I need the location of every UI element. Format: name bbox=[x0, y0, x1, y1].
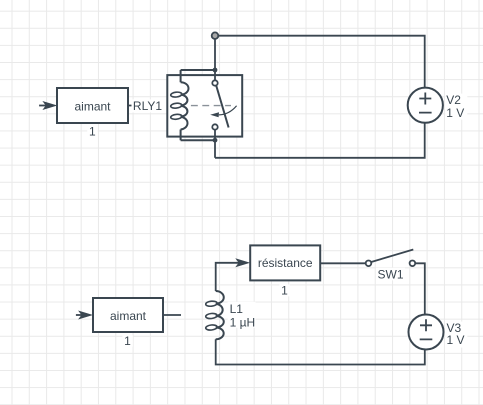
junction dot bottom bbox=[213, 138, 218, 143]
wire: input arrow tail to aimant (bottom) bbox=[76, 314, 82, 316]
wire: inductor top to résistance with arrowhead bbox=[216, 263, 239, 291]
svg-text:1 V: 1 V bbox=[447, 333, 465, 347]
svg-text:résistance: résistance bbox=[258, 256, 313, 270]
svg-text:aimant: aimant bbox=[110, 309, 147, 323]
switch SW1 contact left bbox=[366, 261, 372, 267]
wire: aimant 1 to relay RLY1 bbox=[128, 105, 167, 107]
relay coil loop 1 bbox=[170, 92, 182, 98]
relay coil loop 3 bbox=[170, 114, 182, 120]
voltage source V2 bbox=[408, 88, 443, 123]
block: aimant 1 bbox=[57, 88, 128, 123]
junction dot top bbox=[213, 68, 218, 73]
relay switch contact top bbox=[212, 80, 217, 85]
label background 1 (résistance) bbox=[279, 285, 289, 297]
wire: switch top lead bbox=[214, 36, 216, 83]
relay switch blade bbox=[216, 86, 228, 128]
wire: inductor bottom rail to V3 bbox=[216, 339, 425, 364]
wire: top rail to V2 bbox=[215, 36, 425, 88]
wire: résistance to SW1 bbox=[320, 262, 366, 264]
relay coil RLY1 bbox=[181, 82, 189, 129]
svg-text:1 µH: 1 µH bbox=[230, 315, 256, 329]
inductor loop 1 bbox=[205, 301, 217, 307]
voltage source V3 bbox=[409, 315, 444, 350]
switch SW1 contact right bbox=[410, 261, 416, 267]
inductor loop 3 bbox=[205, 324, 217, 330]
svg-text:1: 1 bbox=[124, 334, 131, 348]
label background V2 bbox=[445, 94, 467, 120]
relay dashed link bbox=[191, 105, 231, 107]
svg-text:SW1: SW1 bbox=[377, 268, 403, 282]
switch SW1 blade bbox=[371, 250, 413, 263]
label background L1 bbox=[228, 302, 256, 328]
inductor L1 bbox=[216, 291, 224, 339]
svg-text:RLY1: RLY1 bbox=[133, 99, 162, 113]
label background SW1 bbox=[376, 268, 405, 281]
arrowhead into aimant 1 bbox=[42, 101, 57, 110]
inductor loop 2 bbox=[205, 313, 217, 319]
wire: switch bottom lead bbox=[214, 127, 216, 158]
relay coil bottom bracket bbox=[181, 130, 215, 141]
label background 1 (bottom aimant) bbox=[122, 335, 132, 347]
label background V3 bbox=[445, 322, 467, 348]
relay switch arc arrow bbox=[219, 106, 237, 115]
relay RLY1 box bbox=[167, 75, 242, 137]
relay coil top bracket bbox=[181, 70, 215, 82]
svg-text:1 V: 1 V bbox=[446, 106, 464, 120]
arrowhead into aimant (bottom) bbox=[78, 311, 93, 320]
svg-text:1: 1 bbox=[281, 283, 288, 297]
relay switch contact bottom bbox=[212, 124, 217, 129]
svg-text:V2: V2 bbox=[446, 93, 461, 107]
svg-text:aimant: aimant bbox=[74, 99, 111, 113]
waypoint dot bbox=[212, 32, 219, 39]
label background RLY1 bbox=[132, 99, 167, 112]
wire: SW1 to V3 bbox=[415, 263, 425, 314]
svg-text:1: 1 bbox=[89, 124, 96, 138]
wire: aimant 2 output stub bbox=[163, 314, 181, 316]
wire: input arrow tail to aimant 1 bbox=[39, 105, 46, 107]
relay coil loop 2 bbox=[170, 103, 182, 109]
block: résistance bbox=[250, 245, 320, 280]
block: aimant 2 bbox=[93, 298, 163, 332]
wire: V2 bottom to bottom rail to relay bbox=[215, 123, 425, 158]
label background 1 (top aimant) bbox=[87, 126, 97, 138]
svg-text:L1: L1 bbox=[230, 302, 244, 316]
